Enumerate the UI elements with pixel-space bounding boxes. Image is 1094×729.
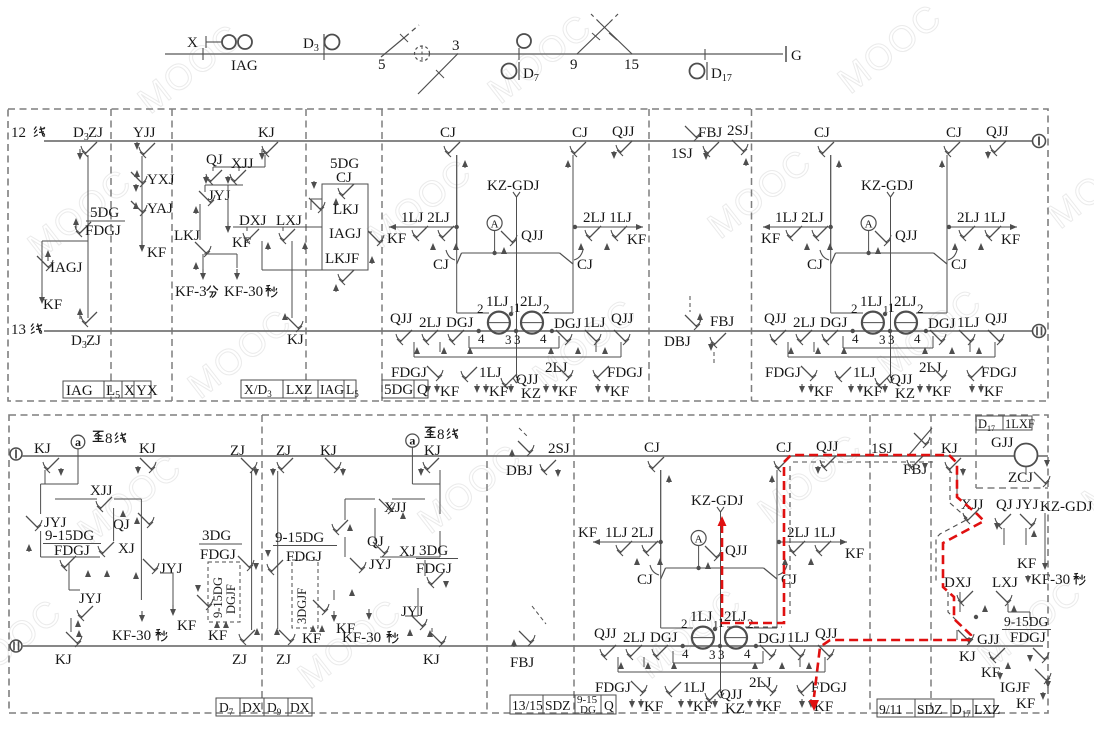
svg-text:QJJ: QJJ — [611, 311, 634, 327]
svg-text:1SJ: 1SJ — [671, 146, 693, 162]
svg-text:KF: KF — [1017, 556, 1036, 572]
svg-text:1LJ 2LJ: 1LJ 2LJ — [605, 525, 654, 541]
svg-text:3: 3 — [505, 332, 512, 347]
svg-text:12: 12 — [11, 125, 26, 141]
svg-text:KF: KF — [43, 297, 62, 313]
svg-text:3DG: 3DG — [202, 528, 231, 544]
svg-text:9-15DG: 9-15DG — [275, 530, 324, 546]
svg-text:FDGJ: FDGJ — [981, 365, 1017, 381]
svg-text:1LJ 2LJ: 1LJ 2LJ — [775, 210, 824, 226]
svg-text:DGJ: DGJ — [928, 316, 956, 332]
svg-text:KF-30: KF-30 — [342, 630, 381, 646]
svg-text:2: 2 — [477, 301, 484, 316]
svg-text:ZJ: ZJ — [88, 125, 103, 141]
svg-text:ZJ: ZJ — [276, 443, 291, 459]
svg-text:KF: KF — [762, 699, 781, 715]
svg-text:QJJ: QJJ — [725, 543, 748, 559]
svg-text:1LJ: 1LJ — [583, 315, 606, 331]
svg-text:5DG: 5DG — [384, 382, 413, 398]
svg-text:1LJ: 1LJ — [690, 609, 713, 625]
svg-text:DX: DX — [290, 700, 310, 715]
svg-text:KF: KF — [693, 699, 712, 715]
svg-text:DXJ: DXJ — [944, 575, 972, 591]
svg-text:3: 3 — [879, 332, 886, 347]
svg-text:1LJ: 1LJ — [787, 630, 810, 646]
svg-text:13: 13 — [11, 322, 26, 338]
svg-text:2LJ 1LJ: 2LJ 1LJ — [957, 210, 1006, 226]
svg-text:3: 3 — [718, 647, 725, 662]
svg-text:DX: DX — [242, 700, 262, 715]
svg-text:CJ: CJ — [572, 125, 588, 141]
svg-text:XJ: XJ — [399, 544, 416, 560]
svg-text:IAGJ: IAGJ — [50, 260, 83, 276]
svg-text:KF: KF — [440, 384, 459, 400]
svg-text:9-15DG: 9-15DG — [1004, 614, 1048, 629]
svg-text:GJJ: GJJ — [991, 435, 1014, 451]
svg-text:2SJ: 2SJ — [727, 123, 749, 139]
svg-text:DG: DG — [580, 704, 596, 716]
svg-text:CJ: CJ — [637, 572, 653, 588]
svg-text:3: 3 — [709, 647, 716, 662]
svg-text:XJJ: XJJ — [90, 483, 113, 499]
svg-text:2: 2 — [543, 301, 550, 316]
svg-text:CJ: CJ — [776, 440, 792, 456]
svg-text:KF: KF — [761, 231, 780, 247]
svg-text:QJJ: QJJ — [986, 124, 1009, 140]
svg-text:CJ: CJ — [433, 257, 449, 273]
svg-text:DGJ: DGJ — [650, 630, 678, 646]
svg-text:CJ: CJ — [807, 257, 823, 273]
svg-text:CJ: CJ — [644, 440, 660, 456]
svg-text:JYJ: JYJ — [401, 604, 424, 620]
svg-text:XJJ: XJJ — [231, 156, 254, 172]
svg-text:X: X — [187, 35, 198, 51]
svg-text:FBJ: FBJ — [710, 314, 734, 330]
svg-text:KZ-GDJ: KZ-GDJ — [487, 178, 540, 194]
svg-text:IGJF: IGJF — [1000, 680, 1030, 696]
svg-text:1LJ: 1LJ — [957, 315, 980, 331]
svg-text:QJJ: QJJ — [521, 228, 544, 244]
svg-text:2: 2 — [917, 301, 924, 316]
svg-text:KF: KF — [489, 384, 508, 400]
svg-text:1LJ: 1LJ — [683, 680, 706, 696]
svg-text:FDGJ: FDGJ — [765, 365, 801, 381]
svg-text:5DG: 5DG — [90, 205, 119, 221]
svg-text:2LJ 1LJ: 2LJ 1LJ — [583, 210, 632, 226]
svg-text:LXZ: LXZ — [974, 702, 1000, 717]
svg-text:3DGJF: 3DGJF — [295, 588, 309, 624]
svg-text:ZJ: ZJ — [232, 652, 247, 668]
svg-text:1LJ: 1LJ — [860, 294, 883, 310]
svg-text:QJJ: QJJ — [594, 626, 617, 642]
svg-text:JYJ: JYJ — [369, 557, 392, 573]
svg-text:KF: KF — [610, 384, 629, 400]
svg-text:FDGJ: FDGJ — [200, 547, 236, 563]
svg-text:QJJ: QJJ — [815, 626, 838, 642]
svg-text:KF: KF — [814, 384, 833, 400]
svg-text:YJJ: YJJ — [133, 125, 156, 141]
svg-text:a: a — [75, 435, 81, 449]
svg-text:KF: KF — [147, 245, 166, 261]
svg-text:ZCJ: ZCJ — [1008, 470, 1033, 486]
svg-text:9-15DG: 9-15DG — [211, 577, 225, 618]
svg-text:8: 8 — [105, 431, 113, 447]
svg-text:KF-30: KF-30 — [1031, 572, 1070, 588]
svg-text:FDGJ: FDGJ — [391, 365, 427, 381]
svg-text:KJ: KJ — [258, 125, 275, 141]
svg-text:QJ: QJ — [996, 497, 1013, 513]
svg-text:4: 4 — [540, 331, 547, 346]
svg-text:KF: KF — [863, 384, 882, 400]
svg-text:3: 3 — [514, 332, 521, 347]
svg-text:CJ: CJ — [577, 257, 593, 273]
svg-text:FBJ: FBJ — [698, 125, 722, 141]
svg-text:A: A — [695, 534, 703, 546]
svg-text:Q: Q — [417, 382, 428, 398]
svg-text:Q: Q — [604, 698, 614, 713]
svg-text:FDGJ: FDGJ — [595, 680, 631, 696]
svg-text:QJ: QJ — [206, 152, 223, 168]
svg-text:13/15: 13/15 — [512, 698, 543, 713]
svg-text:YXJ: YXJ — [147, 172, 175, 188]
svg-text:QJJ: QJJ — [612, 124, 635, 140]
svg-text:KF: KF — [1001, 232, 1020, 248]
svg-text:KF: KF — [177, 618, 196, 634]
svg-text:LXJ: LXJ — [992, 575, 1018, 591]
svg-text:X: X — [124, 383, 135, 399]
svg-text:KZ-GDJ: KZ-GDJ — [1040, 499, 1093, 515]
svg-text:G: G — [791, 48, 802, 64]
svg-text:15: 15 — [624, 57, 639, 73]
svg-text:IAG: IAG — [320, 382, 344, 397]
svg-text:DBJ: DBJ — [506, 463, 533, 479]
svg-text:QJJ: QJJ — [895, 228, 918, 244]
svg-text:LKJ: LKJ — [174, 228, 200, 244]
svg-text:3: 3 — [452, 38, 460, 54]
svg-text:1LJ: 1LJ — [486, 294, 509, 310]
svg-text:JYJ: JYJ — [79, 591, 102, 607]
svg-text:KF-30: KF-30 — [112, 628, 151, 644]
svg-text:KJ: KJ — [320, 443, 337, 459]
svg-text:KF: KF — [387, 231, 406, 247]
svg-text:FDGJ: FDGJ — [1010, 630, 1046, 646]
svg-text:1LJ: 1LJ — [479, 365, 502, 381]
svg-text:CJ: CJ — [951, 257, 967, 273]
svg-text:IAG: IAG — [231, 58, 258, 74]
svg-text:IAGJ: IAGJ — [329, 226, 362, 242]
svg-text:9-15DG: 9-15DG — [45, 528, 94, 544]
svg-text:DGJF: DGJF — [224, 584, 238, 614]
svg-text:DGJ: DGJ — [820, 315, 848, 331]
svg-text:DGJ: DGJ — [446, 315, 474, 331]
svg-text:KF: KF — [627, 232, 646, 248]
svg-text:2LJ: 2LJ — [520, 294, 543, 310]
svg-text:KJ: KJ — [959, 649, 976, 665]
svg-text:2: 2 — [851, 301, 858, 316]
svg-text:ZJ: ZJ — [276, 652, 291, 668]
svg-text:FDGJ: FDGJ — [85, 223, 121, 239]
svg-text:KZ-GDJ: KZ-GDJ — [861, 178, 914, 194]
svg-text:5: 5 — [378, 57, 386, 73]
svg-text:2LJ 1LJ: 2LJ 1LJ — [787, 525, 836, 541]
svg-text:4: 4 — [682, 646, 689, 661]
svg-text:2LJ: 2LJ — [623, 630, 646, 646]
svg-text:KJ: KJ — [34, 441, 51, 457]
svg-text:3DG: 3DG — [419, 543, 448, 559]
svg-text:JYJ: JYJ — [1016, 497, 1039, 513]
svg-text:JYJ: JYJ — [160, 561, 183, 577]
svg-text:KF: KF — [932, 384, 951, 400]
svg-text:KF: KF — [558, 384, 577, 400]
svg-text:CJ: CJ — [814, 125, 830, 141]
svg-text:A: A — [491, 219, 499, 231]
svg-text:KF: KF — [1016, 696, 1035, 712]
svg-text:2LJ: 2LJ — [419, 315, 442, 331]
svg-text:9: 9 — [570, 57, 578, 73]
svg-text:KJ: KJ — [424, 443, 441, 459]
svg-text:SDZ: SDZ — [917, 702, 943, 717]
svg-text:FDGJ: FDGJ — [286, 549, 322, 565]
svg-text:KJ: KJ — [287, 332, 304, 348]
svg-text:QJJ: QJJ — [985, 311, 1008, 327]
svg-text:KZ: KZ — [895, 386, 915, 402]
svg-text:3: 3 — [888, 332, 895, 347]
svg-text:SDZ: SDZ — [545, 698, 571, 713]
svg-text:KF: KF — [578, 525, 597, 541]
svg-text:XJ: XJ — [118, 541, 135, 557]
svg-text:QJJ: QJJ — [816, 439, 839, 455]
svg-text:CJ: CJ — [946, 125, 962, 141]
svg-text:KF-3: KF-3 — [175, 284, 207, 300]
svg-text:LKJ: LKJ — [333, 202, 359, 218]
svg-text:QJJ: QJJ — [764, 311, 787, 327]
svg-text:9/11: 9/11 — [879, 702, 903, 717]
svg-text:KF: KF — [984, 384, 1003, 400]
svg-text:LKJF: LKJF — [325, 251, 359, 267]
svg-text:YAJ: YAJ — [147, 201, 173, 217]
svg-text:KJ: KJ — [139, 441, 156, 457]
svg-text:IAG: IAG — [66, 383, 93, 399]
svg-text:4: 4 — [744, 646, 751, 661]
svg-text:KF: KF — [302, 631, 321, 647]
svg-text:FDGJ: FDGJ — [607, 365, 643, 381]
svg-text:GJJ: GJJ — [977, 632, 1000, 648]
svg-text:2SJ: 2SJ — [548, 441, 570, 457]
svg-text:XJJ: XJJ — [961, 497, 984, 513]
svg-text:ZJ: ZJ — [86, 333, 101, 349]
svg-text:FDGJ: FDGJ — [416, 561, 452, 577]
svg-text:ZJ: ZJ — [230, 443, 245, 459]
svg-text:KZ: KZ — [725, 701, 745, 717]
svg-text:CJ: CJ — [440, 125, 456, 141]
svg-text:2LJ: 2LJ — [894, 294, 917, 310]
svg-text:LXZ: LXZ — [286, 382, 312, 397]
svg-text:DBJ: DBJ — [664, 334, 691, 350]
svg-text:4: 4 — [914, 331, 921, 346]
svg-text:4: 4 — [478, 331, 485, 346]
svg-text:A: A — [865, 219, 873, 231]
svg-text:DGJ: DGJ — [758, 631, 786, 647]
svg-text:KF: KF — [644, 699, 663, 715]
svg-text:1LJ: 1LJ — [853, 365, 876, 381]
svg-text:8: 8 — [437, 427, 445, 443]
svg-text:QJ: QJ — [113, 517, 130, 533]
svg-text:FBJ: FBJ — [510, 655, 534, 671]
svg-text:2: 2 — [681, 616, 688, 631]
svg-text:DGJ: DGJ — [554, 316, 582, 332]
svg-text:KF: KF — [845, 546, 864, 562]
svg-text:KJ: KJ — [423, 652, 440, 668]
svg-text:KZ-GDJ: KZ-GDJ — [691, 493, 744, 509]
svg-text:KF: KF — [208, 628, 227, 644]
svg-text:KF-30: KF-30 — [224, 284, 263, 300]
svg-text:1LXF: 1LXF — [1005, 417, 1035, 431]
svg-text:1LJ 2LJ: 1LJ 2LJ — [401, 210, 450, 226]
svg-text:KJ: KJ — [55, 652, 72, 668]
svg-text:KZ: KZ — [521, 386, 541, 402]
svg-text:FDGJ: FDGJ — [54, 543, 90, 559]
svg-text:4: 4 — [852, 331, 859, 346]
svg-text:2LJ: 2LJ — [793, 315, 816, 331]
svg-text:YX: YX — [136, 383, 158, 399]
svg-text:QJJ: QJJ — [390, 311, 413, 327]
svg-text:a: a — [409, 434, 415, 448]
